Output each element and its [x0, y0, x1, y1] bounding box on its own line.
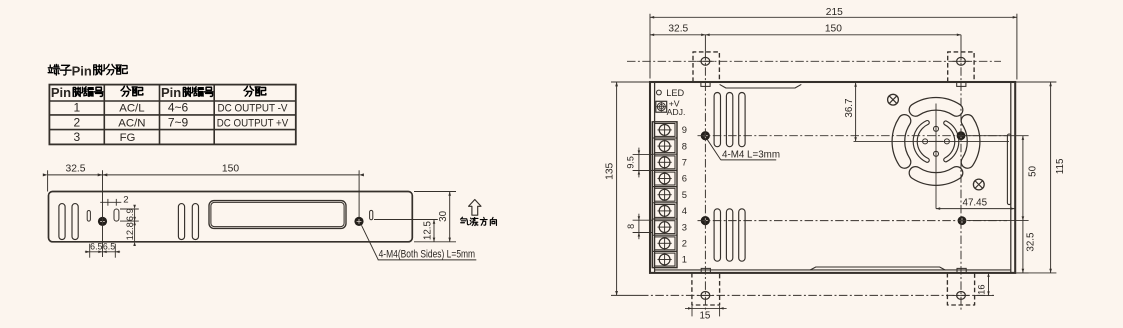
svg-text:8: 8 [682, 140, 687, 151]
svg-text:9.5: 9.5 [625, 156, 635, 169]
svg-text:12.5: 12.5 [423, 221, 434, 241]
svg-text:150: 150 [825, 23, 842, 34]
svg-text:12.8: 12.8 [125, 222, 135, 240]
svg-text:16: 16 [977, 284, 987, 294]
svg-text:9: 9 [682, 124, 687, 135]
svg-text:Pin: Pin [72, 64, 92, 79]
svg-text:32.5: 32.5 [65, 163, 85, 174]
svg-text:215: 215 [826, 7, 843, 18]
svg-text:6: 6 [682, 173, 687, 184]
svg-text:47.45: 47.45 [963, 197, 988, 208]
svg-text:3: 3 [682, 221, 687, 232]
svg-text:DC OUTPUT +V: DC OUTPUT +V [217, 117, 289, 129]
svg-text:4: 4 [682, 205, 687, 216]
svg-text:32.5: 32.5 [668, 23, 688, 34]
svg-text:2: 2 [73, 115, 80, 129]
svg-text:Pin: Pin [161, 85, 181, 100]
svg-text:7: 7 [682, 157, 687, 168]
svg-text:135: 135 [605, 162, 616, 179]
svg-text:AC/N: AC/N [118, 117, 145, 129]
svg-text:6.9: 6.9 [125, 208, 135, 221]
svg-text:4~6: 4~6 [168, 101, 189, 115]
svg-text:LED: LED [666, 88, 684, 98]
svg-text:36.7: 36.7 [844, 99, 855, 118]
svg-text:4-M4(Both Sides) L=5mm: 4-M4(Both Sides) L=5mm [379, 249, 476, 261]
svg-text:115: 115 [1055, 158, 1066, 174]
svg-text:50: 50 [1027, 165, 1038, 176]
svg-text:2: 2 [682, 238, 687, 249]
svg-text:ADJ.: ADJ. [667, 107, 686, 117]
svg-text:DC OUTPUT -V: DC OUTPUT -V [218, 103, 288, 115]
svg-text:1: 1 [73, 101, 80, 115]
svg-text:6.5: 6.5 [103, 241, 115, 251]
svg-text:Pin: Pin [51, 85, 71, 100]
svg-text:32.5: 32.5 [1025, 232, 1036, 252]
svg-text:7~9: 7~9 [168, 115, 189, 129]
svg-text:FG: FG [120, 132, 136, 144]
svg-text:6.5: 6.5 [90, 241, 102, 251]
svg-text:30: 30 [438, 210, 449, 221]
svg-text:3: 3 [73, 130, 80, 144]
svg-text:15: 15 [699, 311, 710, 322]
svg-text:1: 1 [682, 254, 687, 265]
svg-text:5: 5 [682, 189, 687, 200]
svg-text:150: 150 [222, 163, 239, 174]
svg-text:AC/L: AC/L [119, 103, 144, 115]
svg-text:4-M4 L=3mm: 4-M4 L=3mm [722, 150, 780, 161]
svg-text:8: 8 [626, 224, 636, 229]
svg-text:2: 2 [123, 195, 128, 206]
